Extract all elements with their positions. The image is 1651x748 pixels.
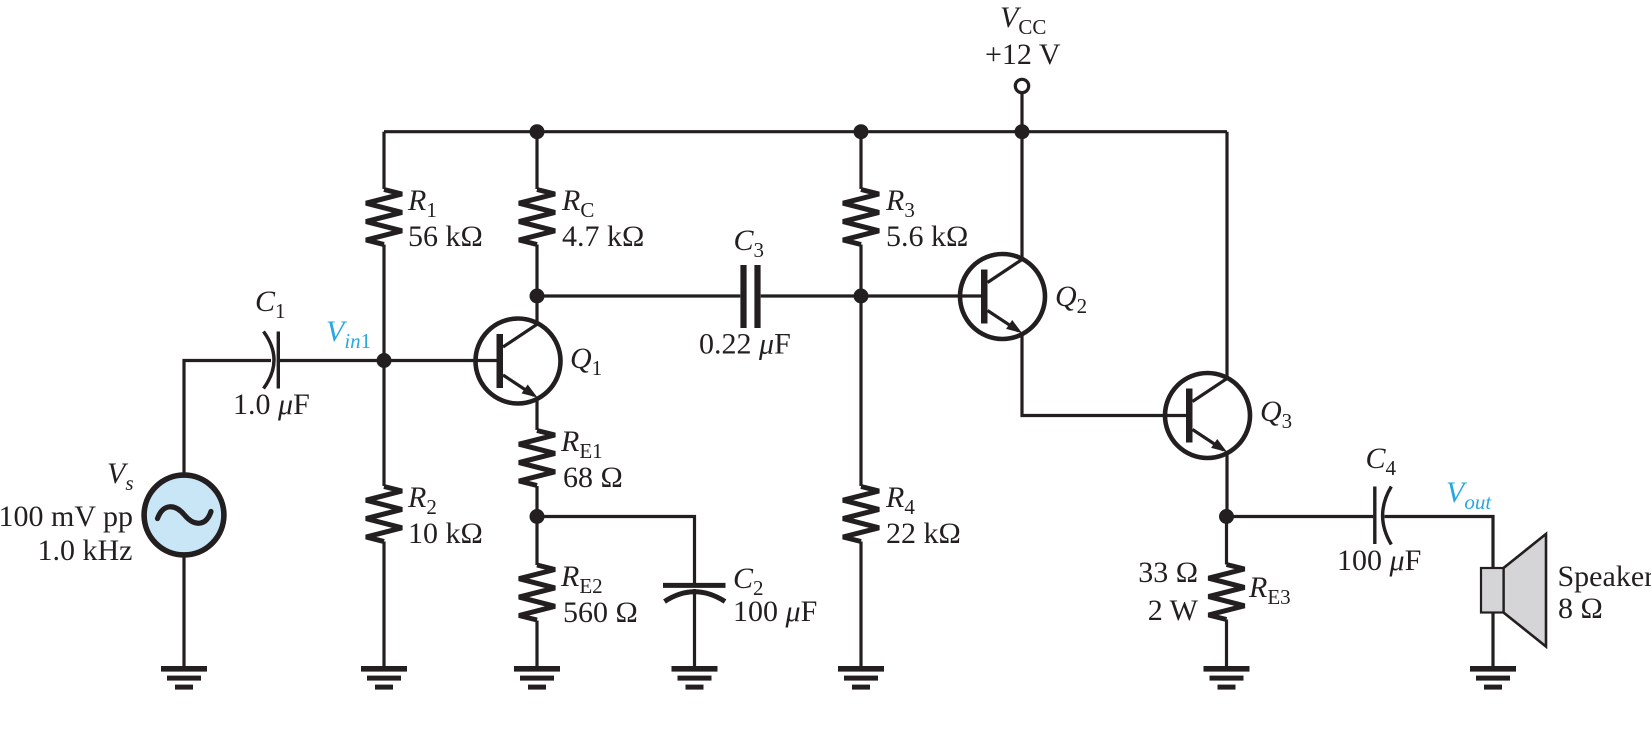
ground below Vs: [161, 666, 207, 690]
svg-text:0.22 μF: 0.22 μF: [699, 328, 791, 361]
wire RE3 bottom to ground: [1225, 620, 1228, 667]
wire Q1 emitter down to RE1: [535, 398, 538, 430]
resistor RE1: [519, 431, 555, 486]
wire VCC terminal lead: [1020, 94, 1023, 132]
wire top VCC supply bus: [384, 130, 1227, 133]
wire R1 top lead from bus: [382, 132, 385, 189]
wire collector node down to Q1 collector: [535, 296, 538, 324]
wire R2 bottom to ground: [382, 542, 385, 667]
wire RC bottom to collector node: [535, 245, 538, 297]
resistor RE3: [1209, 565, 1245, 620]
svg-text:1.0 μF: 1.0 μF: [233, 388, 310, 421]
wire output node to C4 left plate: [1227, 515, 1374, 518]
junction bus at RC: [530, 124, 545, 139]
svg-text:Speaker: Speaker: [1558, 560, 1651, 593]
junction bus at R3: [854, 124, 869, 139]
svg-text:100 μF: 100 μF: [1337, 544, 1421, 577]
wire C4 right plate to speaker and ground: [1385, 517, 1494, 667]
capacitor C4: [1375, 487, 1392, 545]
wire RE1 bottom to emitter node to RE2 top: [535, 486, 538, 565]
ground below R4: [838, 666, 884, 690]
svg-text:10 kΩ: 10 kΩ: [408, 517, 483, 550]
junction bus at VCC / Q2 collector: [1015, 124, 1030, 139]
ground below C2: [672, 666, 718, 690]
svg-text:100 mV pp: 100 mV pp: [0, 500, 133, 533]
wire C1 right plate to Vin1 node and Q1 base: [280, 359, 499, 362]
svg-text:1.0 kHz: 1.0 kHz: [38, 534, 133, 567]
resistor R4: [843, 487, 879, 542]
wire Q3 collector up to bus right end: [1225, 132, 1228, 378]
svg-text:2 W: 2 W: [1148, 594, 1199, 627]
capacitor C3: [744, 265, 758, 328]
ground below speaker: [1470, 666, 1516, 690]
svg-text:68 Ω: 68 Ω: [563, 461, 623, 494]
wire Q2 emitter down and right to Q3 base: [1022, 334, 1187, 416]
wire C3 right plate to R4 node and Q2 base: [761, 294, 982, 297]
wire R3 bottom through node to R4 top: [859, 245, 862, 487]
svg-text:22 kΩ: 22 kΩ: [886, 517, 961, 550]
svg-text:33 Ω: 33 Ω: [1138, 556, 1198, 589]
svg-text:5.6 kΩ: 5.6 kΩ: [886, 220, 968, 253]
svg-text:560 Ω: 560 Ω: [563, 596, 638, 629]
wire RE2 bottom to ground: [535, 621, 538, 667]
svg-text:4.7 kΩ: 4.7 kΩ: [562, 220, 644, 253]
transistor Q3 (NPN): [1165, 373, 1250, 458]
wire emitter node to C2 branch: [537, 517, 695, 584]
svg-text:8 Ω: 8 Ω: [1558, 592, 1603, 625]
svg-text:56 kΩ: 56 kΩ: [408, 220, 483, 253]
wire Vs bottom lead to ground: [182, 557, 185, 666]
wire R3 top lead from bus: [859, 132, 862, 189]
capacitor C2: [663, 585, 726, 601]
wire Q3 emitter down to output node: [1225, 454, 1228, 517]
junction C3 / R3 / Q2 base node: [854, 289, 869, 304]
resistor R3: [843, 190, 879, 245]
VCC terminal: [1015, 79, 1028, 92]
wire collector node to C3 left plate: [537, 294, 740, 297]
junction Q3 emitter output node: [1219, 509, 1234, 524]
wire C2 bottom to ground: [693, 589, 696, 666]
ground below R2: [361, 666, 407, 690]
resistor RC: [519, 190, 555, 245]
resistor R1: [366, 190, 402, 245]
wire Vs top lead up and right to C1: [184, 361, 271, 474]
wire Q2 collector up to bus: [1020, 132, 1023, 259]
junction node Vin1: [377, 353, 392, 368]
capacitor C1: [264, 332, 279, 389]
wire R4 bottom to ground: [859, 542, 862, 667]
junction Q1 collector / C3 node: [530, 289, 545, 304]
transistor Q2 (NPN): [960, 254, 1045, 339]
svg-text:100 μF: 100 μF: [733, 595, 817, 628]
ground below RE2: [514, 666, 560, 690]
wire RC top lead from bus: [535, 132, 538, 189]
resistor R2: [366, 487, 402, 542]
speaker: [1481, 534, 1546, 647]
wire output node down to RE3: [1225, 517, 1228, 565]
resistor RE2: [519, 565, 555, 620]
junction Q1 emitter / C2 node: [530, 509, 545, 524]
ground below RE3: [1204, 666, 1250, 690]
svg-text:+12 V: +12 V: [985, 38, 1061, 71]
transistor Q1 (NPN): [476, 319, 561, 404]
wire R1 bottom to Vin1 node to R2 top: [382, 245, 385, 487]
AC source Vs: [144, 475, 224, 555]
